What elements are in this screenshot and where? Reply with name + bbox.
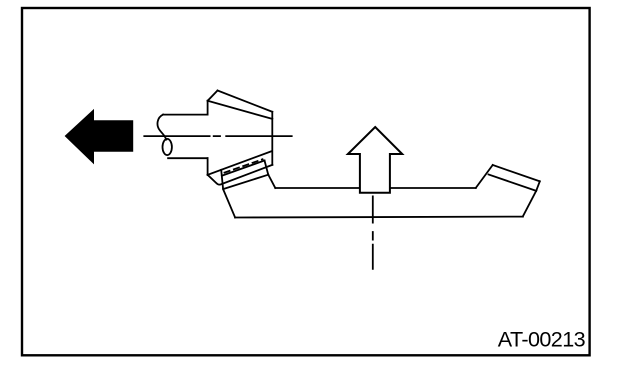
cone hub top outer slant	[218, 91, 273, 112]
right flange bottom edge	[489, 175, 537, 191]
left flange bottom edge	[223, 175, 268, 189]
right flange top edge	[493, 165, 540, 181]
left flange top edge	[222, 161, 265, 176]
bracket top edge	[275, 187, 476, 189]
cone hub right face	[271, 112, 273, 165]
collar hidden edge (dashed)	[225, 159, 263, 172]
shaft break S-curve (left broken end)	[157, 115, 166, 140]
shaft cylinder bottom line	[168, 157, 208, 159]
vertical center line (dash-dot)	[372, 196, 374, 268]
right flange right end	[536, 181, 540, 191]
bracket bent left end inner edge	[221, 170, 235, 218]
bracket right bend outer edge	[523, 191, 536, 217]
collar top edge	[208, 151, 272, 175]
left flange right edge	[265, 161, 269, 175]
cone hub top-left chamfer	[208, 91, 218, 101]
cone hub left vertical edges	[207, 101, 209, 175]
bracket right bend inner edge	[476, 165, 493, 188]
hollow up arrow	[348, 127, 402, 193]
bracket bottom edge	[235, 216, 523, 219]
left flange to bracket top connector	[268, 175, 275, 189]
shaft end ellipse	[163, 139, 172, 155]
shaft cylinder top line	[163, 114, 208, 116]
svg-text:AT-00213: AT-00213	[498, 327, 586, 352]
horizontal center line (shaft axis, dash-dot)	[144, 135, 291, 137]
collar bottom edge with rounded left end	[208, 165, 273, 185]
black removal-direction arrow	[65, 109, 134, 164]
cone hub top inner slant	[208, 101, 273, 119]
